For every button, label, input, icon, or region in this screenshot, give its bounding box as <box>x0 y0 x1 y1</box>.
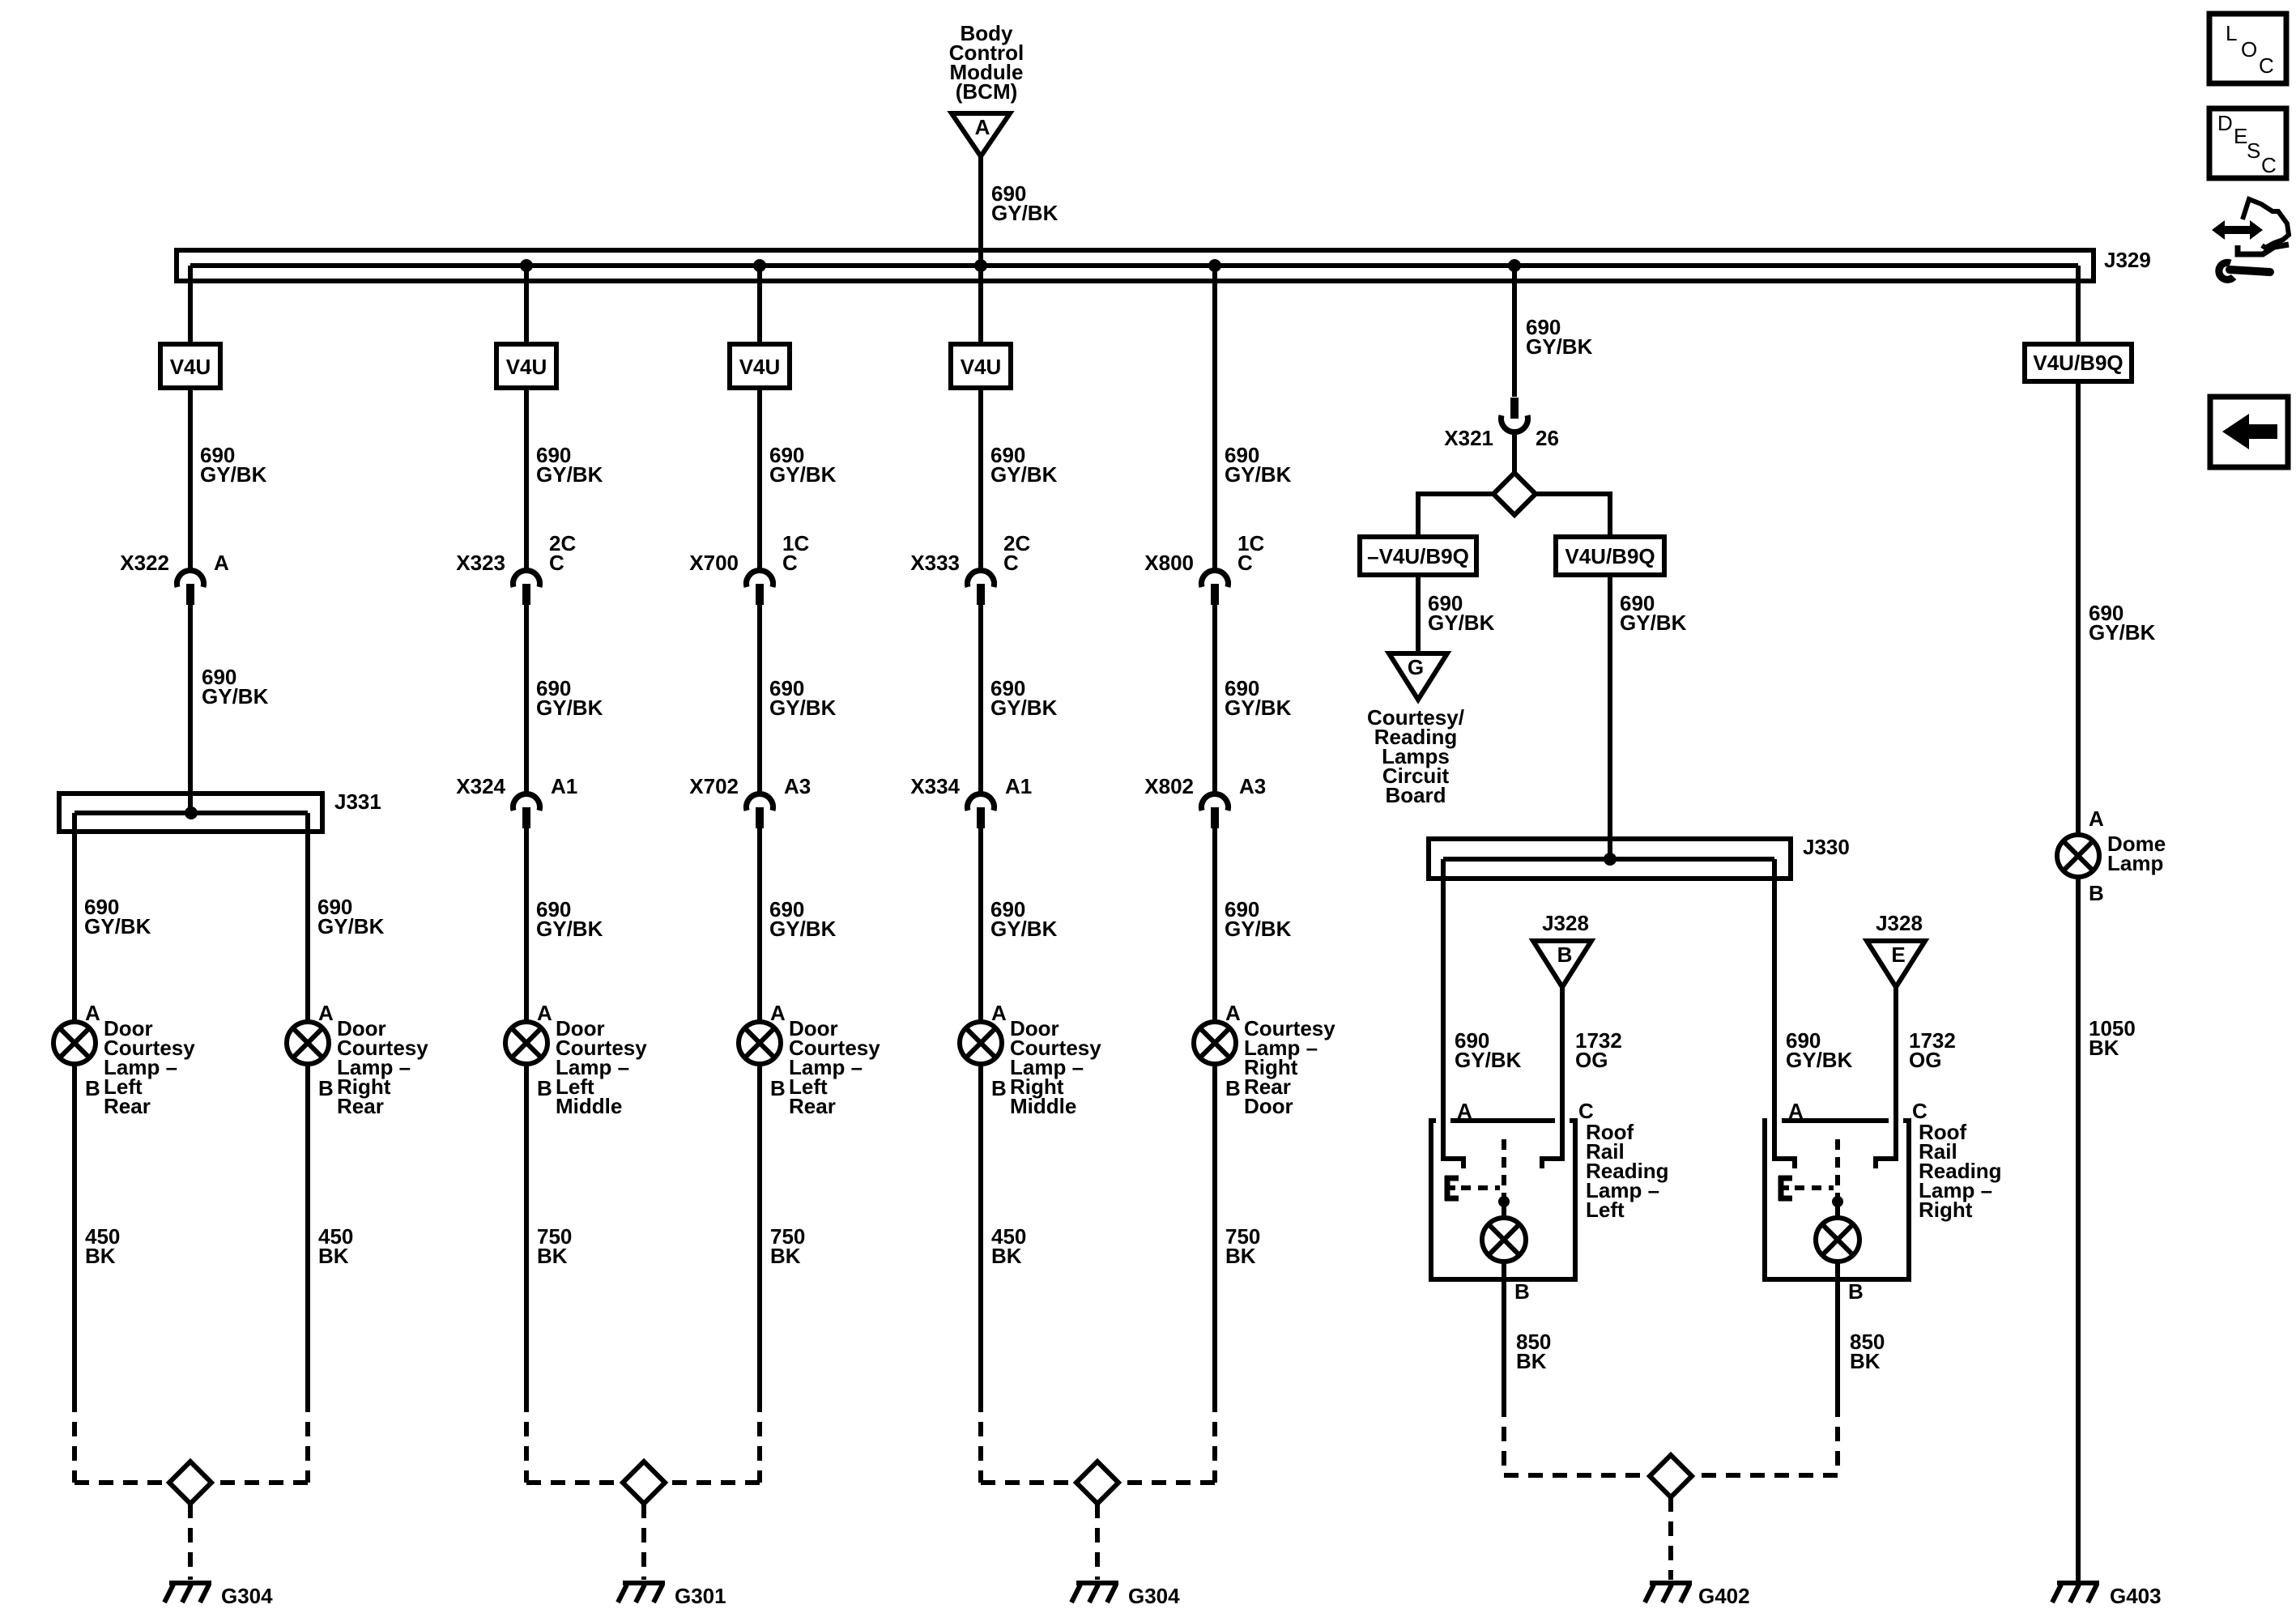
svg-text:X702: X702 <box>689 774 739 798</box>
label courtesy lamp right rear door <box>1244 1016 1335 1118</box>
ground G402 <box>1645 1583 1692 1602</box>
LOC page-location icon box <box>2209 14 2286 83</box>
car with arrows and wrench icon <box>2212 199 2289 279</box>
wire J329 to connector X321, 690 GY/BK <box>1512 266 1517 397</box>
label 690 GY/BK (circuit board branch) <box>1428 591 1495 635</box>
svg-text:GY/BK: GY/BK <box>769 462 837 487</box>
svg-text:26: 26 <box>1536 426 1559 450</box>
wire V4U/B9Q to bus J330, 690 GY/BK <box>1608 575 1612 859</box>
svg-text:Board: Board <box>1385 783 1446 807</box>
label 690 GY/BK (door courtesy lamp right middle upper) <box>990 443 1058 487</box>
svg-text:–V4U/B9Q: –V4U/B9Q <box>1367 544 1469 568</box>
dashed wire group3 right vertical <box>1212 1398 1217 1483</box>
svg-text:GY/BK: GY/BK <box>1526 334 1593 359</box>
dashed wire to splice (group2 left) <box>526 1480 623 1485</box>
svg-text:Rear: Rear <box>104 1094 151 1118</box>
svg-text:Middle: Middle <box>1010 1094 1076 1118</box>
svg-text:J328: J328 <box>1876 911 1923 935</box>
wire J329 to fuse box door courtesy lamp right middle <box>978 266 983 344</box>
wire lamp to pin B (roof rail reading lamp right) <box>1835 1262 1840 1402</box>
fuse V4U box (door courtesy lamp left middle) <box>496 344 556 388</box>
wire J329 to connector X800, 690 GY/BK <box>1212 266 1217 570</box>
lamp bulb (roof rail reading lamp left) <box>1482 1218 1526 1262</box>
bus J330 inner conductor <box>1443 857 1774 862</box>
svg-text:OG: OG <box>1575 1048 1608 1072</box>
label 850 BK (roof rail reading lamp left) <box>1516 1330 1551 1373</box>
dashed wire to splice (G402 left) <box>1504 1473 1650 1478</box>
svg-text:E: E <box>2234 124 2247 148</box>
svg-text:A1: A1 <box>551 774 577 798</box>
pin B of door courtesy lamp left rear (2) <box>770 1076 786 1100</box>
svg-text:A3: A3 <box>784 774 811 798</box>
dashed wire splice to ground G301 <box>641 1504 646 1580</box>
svg-text:Rear: Rear <box>337 1094 384 1118</box>
dashed wire to splice (group1 right) <box>211 1480 308 1485</box>
svg-text:G301: G301 <box>675 1584 726 1608</box>
wire lamp to splice, 450 BK (right rear) <box>305 1064 310 1398</box>
wire X322 to splice pack J331, 690 GY/BK <box>188 605 193 813</box>
connector X323 <box>456 531 576 605</box>
svg-text:BK: BK <box>2089 1036 2119 1060</box>
splice diamond (G402) <box>1650 1455 1692 1497</box>
fuse V4U box (left rear circuit) <box>160 344 220 388</box>
svg-text:GY/BK: GY/BK <box>1455 1048 1522 1072</box>
svg-text:(BCM): (BCM) <box>956 79 1018 104</box>
lamp dome <box>2057 835 2099 877</box>
lamp door courtesy right rear <box>287 1022 329 1064</box>
connector X802 <box>1144 774 1266 828</box>
svg-text:X323: X323 <box>456 551 505 575</box>
svg-text:B: B <box>1225 1076 1241 1100</box>
pin C (roof rail reading lamp left) <box>1578 1099 1594 1123</box>
svg-text:X334: X334 <box>910 774 960 798</box>
svg-text:GY/BK: GY/BK <box>200 462 267 487</box>
svg-text:Door: Door <box>1244 1094 1293 1118</box>
switch actuator E (roof rail reading lamp left) <box>1445 1176 1459 1201</box>
ground G301 <box>618 1583 665 1602</box>
label J331 <box>334 789 381 814</box>
bus J331 inner conductor <box>75 811 308 815</box>
svg-text:V4U: V4U <box>506 355 547 379</box>
junction on J329 at x=1500 <box>1208 259 1221 272</box>
dashed wire to splice (group2 right) <box>665 1480 760 1485</box>
label 690 GY/BK (col1 lower) <box>202 665 269 709</box>
ground G403 <box>2052 1583 2099 1602</box>
dashed wire right rear lamp to splice <box>305 1398 310 1483</box>
svg-text:Rear: Rear <box>789 1094 836 1118</box>
contact hook A (roof rail reading lamp right) <box>1772 1113 1795 1168</box>
label 690 GY/BK (J331 left branch) <box>84 895 151 938</box>
svg-text:A: A <box>991 1001 1007 1025</box>
pin A (dome lamp) <box>2089 806 2104 831</box>
dashed wire splice to ground G304 <box>188 1504 193 1580</box>
label Dome Lamp <box>2107 832 2166 875</box>
splice diamond (X321 branch) <box>1493 473 1536 515</box>
fuse -V4U/B9Q box <box>1360 537 1476 575</box>
DESC description icon box <box>2209 109 2286 178</box>
pin B of courtesy lamp right rear door <box>1225 1076 1241 1100</box>
contact hook C (roof rail reading lamp left) <box>1542 1113 1565 1168</box>
connector X324 <box>456 774 577 828</box>
svg-text:GY/BK: GY/BK <box>990 696 1058 720</box>
dashed wire to ground splice (roof rail reading lamp left) <box>1502 1402 1506 1475</box>
label 690 GY/BK (door courtesy lamp left middle lower) <box>536 897 603 941</box>
wire X800 to X802, 690 GY/BK <box>1212 605 1217 794</box>
label Door Courtesy Lamp Right Rear <box>337 1016 428 1118</box>
label door courtesy lamp right middle <box>1010 1016 1101 1118</box>
splice pack J331 outline <box>59 794 322 832</box>
svg-text:GY/BK: GY/BK <box>84 914 151 938</box>
switch blade dashed (roof rail reading lamp right) <box>1835 1139 1840 1197</box>
junction on J331 <box>185 806 198 819</box>
svg-text:B: B <box>1557 943 1573 967</box>
svg-text:C: C <box>1237 551 1253 575</box>
wire J329 to fuse box door courtesy lamp left rear (2) <box>757 266 762 344</box>
label 450 BK (door courtesy lamp right middle) <box>991 1224 1026 1268</box>
bus J329 inner conductor <box>190 263 2078 268</box>
label J328 (roof rail reading lamp left) <box>1542 911 1589 935</box>
label 690 GY/BK (col1 upper) <box>200 443 267 487</box>
pin B (roof rail reading lamp left) <box>1514 1279 1530 1304</box>
pin A of courtesy lamp right rear door <box>1225 1001 1241 1025</box>
switch junction (roof rail reading lamp left) <box>1498 1196 1510 1207</box>
lamp door courtesy left rear <box>53 1022 96 1064</box>
label 750 BK (courtesy lamp right rear door) <box>1225 1224 1260 1268</box>
label G304 (group1) <box>221 1584 273 1608</box>
svg-text:E: E <box>1891 943 1905 967</box>
svg-text:B: B <box>991 1076 1007 1100</box>
label J328 (roof rail reading lamp right) <box>1876 911 1923 935</box>
lamp door courtesy lamp right middle <box>960 1022 1002 1064</box>
switch blade dashed (roof rail reading lamp left) <box>1502 1139 1506 1197</box>
svg-text:A3: A3 <box>1239 774 1266 798</box>
wire J330 to pin A (roof rail reading lamp right) <box>1772 859 1777 1123</box>
wire J328 to pin C, 1732 OG (roof rail reading lamp right) <box>1893 987 1898 1123</box>
svg-text:A: A <box>770 1001 786 1025</box>
svg-text:A: A <box>537 1001 552 1025</box>
label 690 GY/BK (J331 right branch) <box>317 895 385 938</box>
wire -V4U/B9Q to connector G, 690 GY/BK <box>1416 575 1421 653</box>
svg-text:GY/BK: GY/BK <box>2089 620 2156 645</box>
svg-text:V4U: V4U <box>961 355 1002 379</box>
splice diamond (G304 group3) <box>1076 1462 1118 1504</box>
connector triangle G (courtesy/reading lamps circuit board) <box>1389 653 1447 700</box>
pin A (roof rail reading lamp left) <box>1457 1099 1472 1123</box>
svg-text:BK: BK <box>537 1244 568 1268</box>
svg-text:B: B <box>1514 1279 1530 1304</box>
junction on J329 at x=1870 <box>1508 259 1521 272</box>
svg-text:J330: J330 <box>1803 835 1850 859</box>
wire J328 to pin C, 1732 OG (roof rail reading lamp left) <box>1560 987 1565 1123</box>
wire X334 to lamp, 690 GY/BK <box>978 828 983 1022</box>
wire J331 to door courtesy lamp left rear <box>72 813 77 1022</box>
label 690 GY/BK (roof rail reading lamp right) <box>1786 1028 1853 1072</box>
wire V4U to connector, 690 GY/BK <box>978 388 983 570</box>
label J329 <box>2104 248 2151 272</box>
label Door Courtesy Lamp Left Rear <box>104 1016 195 1118</box>
svg-text:GY/BK: GY/BK <box>769 696 837 720</box>
wire switch to lamp (roof rail reading lamp right) <box>1835 1202 1840 1219</box>
wire splice to V4U/B9Q box <box>1536 491 1610 537</box>
svg-text:B: B <box>2089 881 2104 905</box>
svg-text:BK: BK <box>85 1244 116 1268</box>
label 850 BK (roof rail reading lamp right) <box>1850 1330 1885 1373</box>
connector X333 <box>910 531 1030 605</box>
splice diamond (G304 group1) <box>169 1462 211 1504</box>
svg-text:Right: Right <box>1919 1198 1973 1222</box>
svg-text:A: A <box>1225 1001 1241 1025</box>
back arrow icon box <box>2210 397 2288 467</box>
svg-text:J331: J331 <box>334 789 381 814</box>
contact hook C (roof rail reading lamp right) <box>1876 1113 1898 1168</box>
switch link dashed (roof rail reading lamp left) <box>1461 1185 1500 1190</box>
svg-text:BK: BK <box>770 1244 801 1268</box>
svg-text:BK: BK <box>318 1244 349 1268</box>
label Roof Rail Reading Lamp (roof rail reading lamp right) <box>1919 1120 2002 1222</box>
wire V4U to connector X322, 690 GY/BK <box>188 388 193 570</box>
contact hook A (roof rail reading lamp left) <box>1441 1113 1463 1168</box>
switch junction (roof rail reading lamp right) <box>1832 1196 1843 1207</box>
label 690 GY/BK (door courtesy lamp right middle lower) <box>990 897 1058 941</box>
pin A of door courtesy lamp left rear (2) <box>770 1001 786 1025</box>
connector triangle E (J328 roof rail reading lamp right) <box>1867 941 1925 987</box>
wire V4U to connector, 690 GY/BK <box>524 388 529 570</box>
connector triangle B (J328 roof rail reading lamp left) <box>1533 941 1591 987</box>
svg-text:B: B <box>1848 1279 1864 1304</box>
dashed wire to splice (G402 right) <box>1692 1473 1838 1478</box>
connector X800 <box>1144 531 1264 605</box>
connector X700 <box>689 531 809 605</box>
svg-text:C: C <box>2259 53 2274 78</box>
pin B (roof rail reading lamp right) <box>1848 1279 1864 1304</box>
connector triangle A (BCM) <box>952 113 1010 156</box>
svg-text:J328: J328 <box>1542 911 1589 935</box>
pin A (roof rail reading lamp right) <box>1788 1099 1804 1123</box>
fuse V4U/B9Q box (dome) <box>2025 344 2132 381</box>
lamp bulb (roof rail reading lamp right) <box>1816 1218 1859 1262</box>
wire X324 to lamp, 690 GY/BK <box>524 828 529 1022</box>
wire X321 to splice diamond <box>1512 430 1517 473</box>
switch actuator E (roof rail reading lamp right) <box>1778 1176 1792 1201</box>
svg-text:A: A <box>975 115 990 139</box>
svg-text:GY/BK: GY/BK <box>1225 696 1292 720</box>
label 690 GY/BK (dome) <box>2089 601 2156 645</box>
connector X702 <box>689 774 811 828</box>
svg-text:V4U: V4U <box>170 355 211 379</box>
lamp door courtesy lamp left rear (2) <box>739 1022 781 1064</box>
svg-text:G403: G403 <box>2110 1584 2162 1608</box>
dashed wire left rear lamp to splice <box>72 1398 77 1483</box>
label 690 GY/BK (roof rail reading lamp left) <box>1455 1028 1522 1072</box>
wire J329 to fuse V4U/B9Q (dome) <box>2076 266 2081 344</box>
label 1732 OG (roof rail reading lamp left) <box>1575 1028 1622 1072</box>
splice pack J330 outline <box>1429 839 1791 879</box>
dashed wire door courtesy lamp left middle to ground splice <box>524 1398 529 1483</box>
svg-text:B: B <box>537 1076 552 1100</box>
label 690 GY/BK (door courtesy lamp right middle mid) <box>990 676 1058 720</box>
svg-text:Middle: Middle <box>556 1094 622 1118</box>
splice pack J329 outline <box>177 250 2094 281</box>
label 1050 BK (dome) <box>2089 1016 2136 1060</box>
wire X333 to X334, 690 GY/BK <box>978 605 983 794</box>
wire J329 to fuse V4U (left rear circuit) <box>188 266 193 344</box>
ground G304 (group1) <box>164 1583 211 1602</box>
wire lamp door courtesy lamp left rear (2) to splice, 750 BK <box>757 1064 762 1398</box>
svg-text:V4U/B9Q: V4U/B9Q <box>2033 351 2123 375</box>
svg-text:BK: BK <box>1225 1244 1256 1268</box>
junction on J329 at x=1211 <box>974 259 987 272</box>
svg-text:GY/BK: GY/BK <box>536 696 603 720</box>
wire lamp courtesy lamp right rear door to splice, 750 BK <box>1212 1064 1217 1398</box>
wire X323 to X324, 690 GY/BK <box>524 605 529 794</box>
pin A door courtesy lamp right rear <box>318 1001 334 1025</box>
label 690 GY/BK (door courtesy lamp left middle upper) <box>536 443 603 487</box>
lamp housing box (roof rail reading lamp right) <box>1765 1121 1909 1279</box>
fuse V4U/B9Q box (roof rail branch) <box>1556 537 1664 575</box>
wire switch to lamp (roof rail reading lamp left) <box>1502 1202 1506 1219</box>
junction on J329 at x=938 <box>753 259 766 272</box>
wire J331 to door courtesy lamp right rear <box>305 813 310 1022</box>
svg-text:OG: OG <box>1909 1048 1941 1072</box>
dashed wire to ground splice (roof rail reading lamp right) <box>1835 1402 1840 1475</box>
svg-text:A: A <box>85 1001 100 1025</box>
svg-text:A1: A1 <box>1005 774 1032 798</box>
dashed wire group2 right vertical <box>757 1398 762 1483</box>
label G304 (group3) <box>1128 1584 1180 1608</box>
svg-text:X333: X333 <box>910 551 960 575</box>
svg-text:BK: BK <box>1516 1349 1547 1373</box>
label 690 GY/BK (courtesy lamp right rear door mid) <box>1225 676 1292 720</box>
svg-text:A: A <box>2089 806 2104 831</box>
svg-text:X322: X322 <box>120 551 169 575</box>
junction on J329 at x=650 <box>520 259 533 272</box>
wire X702 to lamp, 690 GY/BK <box>757 828 762 1022</box>
fuse V4U box (door courtesy lamp left rear (2)) <box>730 344 790 388</box>
label 690 GY/BK (door courtesy lamp left middle mid) <box>536 676 603 720</box>
svg-text:GY/BK: GY/BK <box>1786 1048 1853 1072</box>
wire X700 to X702, 690 GY/BK <box>757 605 762 794</box>
fuse V4U box (door courtesy lamp right middle) <box>951 344 1011 388</box>
pin C (roof rail reading lamp right) <box>1912 1099 1928 1123</box>
svg-text:GY/BK: GY/BK <box>1225 917 1292 941</box>
label Body Control Module (BCM) <box>949 21 1024 104</box>
wire X802 to lamp, 690 GY/BK <box>1212 828 1217 1022</box>
svg-text:GY/BK: GY/BK <box>1620 611 1687 635</box>
wire splice to -V4U/B9Q box <box>1418 491 1493 537</box>
label 1732 OG (roof rail reading lamp right) <box>1909 1028 1956 1072</box>
svg-text:B: B <box>318 1076 334 1100</box>
pin B door courtesy lamp left rear <box>85 1076 100 1100</box>
dashed wire splice to ground G304 (group3) <box>1095 1504 1100 1580</box>
connector X322 pin A <box>120 551 229 605</box>
svg-text:G402: G402 <box>1698 1584 1750 1608</box>
wire V4U to connector, 690 GY/BK <box>757 388 762 570</box>
svg-text:GY/BK: GY/BK <box>990 917 1058 941</box>
pin A door courtesy lamp left rear <box>85 1001 100 1025</box>
svg-text:C: C <box>1003 551 1019 575</box>
label 750 BK (door courtesy lamp left rear (2)) <box>770 1224 805 1268</box>
label G301 <box>675 1584 726 1608</box>
svg-text:C: C <box>782 551 798 575</box>
svg-text:Left: Left <box>1586 1198 1625 1222</box>
svg-text:GY/BK: GY/BK <box>202 684 269 709</box>
svg-text:C: C <box>549 551 564 575</box>
svg-text:GY/BK: GY/BK <box>1428 611 1495 635</box>
wire lamp door courtesy lamp left middle to splice, 750 BK <box>524 1064 529 1398</box>
svg-text:A: A <box>214 551 229 575</box>
svg-text:GY/BK: GY/BK <box>990 462 1058 487</box>
connector X321 pin 26 <box>1444 398 1559 450</box>
pin A of door courtesy lamp right middle <box>991 1001 1007 1025</box>
connector X334 <box>910 774 1032 828</box>
label 690 GY/BK (courtesy lamp right rear door upper) <box>1225 443 1292 487</box>
dashed wire door courtesy lamp right middle to ground splice <box>978 1398 983 1483</box>
pin A of door courtesy lamp left middle <box>537 1001 552 1025</box>
pin B (dome lamp) <box>2089 881 2104 905</box>
label 450 BK (left rear) <box>85 1224 120 1268</box>
svg-text:GY/BK: GY/BK <box>769 917 837 941</box>
ground G304 (group3) <box>1071 1583 1118 1602</box>
svg-text:G304: G304 <box>221 1584 273 1608</box>
label J330 <box>1803 835 1850 859</box>
label 690 GY/BK (J330 feed) <box>1620 591 1687 635</box>
svg-text:X800: X800 <box>1144 551 1194 575</box>
dashed wire to splice (group3 left) <box>981 1480 1076 1485</box>
label 690 GY/BK (door courtesy lamp left rear (2) mid) <box>769 676 837 720</box>
wire V4U/B9Q to dome lamp, 690 GY/BK <box>2076 381 2081 835</box>
svg-text:D: D <box>2217 111 2233 135</box>
dashed wire to splice (group1 left) <box>75 1480 169 1485</box>
svg-text:B: B <box>770 1076 786 1100</box>
label Courtesy/Reading Lamps Circuit Board <box>1367 705 1464 807</box>
svg-text:BK: BK <box>1850 1349 1881 1373</box>
svg-text:V4U/B9Q: V4U/B9Q <box>1565 544 1655 568</box>
svg-text:GY/BK: GY/BK <box>317 914 385 938</box>
svg-text:G304: G304 <box>1128 1584 1180 1608</box>
svg-text:B: B <box>85 1076 100 1100</box>
label 690 GY/BK (door courtesy lamp left rear (2) lower) <box>769 897 837 941</box>
lamp housing box (roof rail reading lamp left) <box>1431 1121 1575 1279</box>
svg-text:C: C <box>2261 153 2277 177</box>
label 690 GY/BK (X321 feed) <box>1526 315 1593 359</box>
svg-text:GY/BK: GY/BK <box>991 201 1059 225</box>
wire J329 to fuse box door courtesy lamp left middle <box>524 266 529 344</box>
svg-text:Lamp: Lamp <box>2107 851 2163 875</box>
label 690 GY/BK (BCM feed) <box>991 181 1059 225</box>
wire lamp door courtesy lamp right middle to splice, 450 BK <box>978 1064 983 1398</box>
svg-text:BK: BK <box>991 1244 1022 1268</box>
label 750 BK (door courtesy lamp left middle) <box>537 1224 572 1268</box>
label 450 BK (right rear) <box>318 1224 353 1268</box>
wire lamp to splice, 450 BK (left rear) <box>72 1064 77 1398</box>
wire lamp to pin B (roof rail reading lamp left) <box>1502 1262 1506 1402</box>
svg-text:S: S <box>2247 138 2260 163</box>
svg-text:J329: J329 <box>2104 248 2151 272</box>
switch link dashed (roof rail reading lamp right) <box>1795 1185 1834 1190</box>
label 690 GY/BK (door courtesy lamp left rear (2) upper) <box>769 443 837 487</box>
svg-text:L: L <box>2226 21 2237 45</box>
label G402 <box>1698 1584 1750 1608</box>
pin B of door courtesy lamp left middle <box>537 1076 552 1100</box>
svg-text:O: O <box>2241 37 2257 62</box>
svg-text:X700: X700 <box>689 551 739 575</box>
svg-text:A: A <box>318 1001 334 1025</box>
svg-text:GY/BK: GY/BK <box>1225 462 1292 487</box>
svg-text:GY/BK: GY/BK <box>536 917 603 941</box>
label G403 <box>2110 1584 2162 1608</box>
label 690 GY/BK (courtesy lamp right rear door lower) <box>1225 897 1292 941</box>
lamp courtesy lamp right rear door <box>1194 1022 1236 1064</box>
